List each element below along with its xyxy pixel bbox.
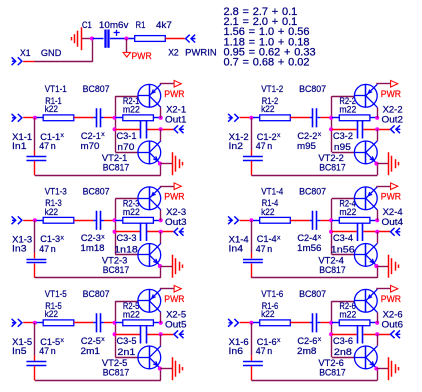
label Out3 — [165, 217, 187, 227]
svg-text:C2-3: C2-3 — [81, 233, 101, 243]
svg-text:x: x — [318, 336, 322, 343]
wire VT1 collector down — [160, 107, 162, 117]
svg-text:47 n: 47 n — [39, 244, 56, 254]
capacitor C3-2 — [358, 120, 363, 138]
svg-text:Out5: Out5 — [165, 319, 187, 329]
svg-text:X2-6: X2-6 — [383, 309, 403, 319]
label PWR block 6 — [381, 294, 401, 304]
power PWR block 2 — [391, 80, 398, 87]
label C1-1 value 47n — [39, 141, 56, 151]
transistor VT1-2 (BC807 pnp) — [354, 84, 377, 107]
ground block 4 — [389, 255, 399, 278]
label VT2-4 — [318, 256, 344, 266]
svg-text:In5: In5 — [12, 346, 27, 356]
label C2-3 value — [81, 243, 105, 253]
transistor VT1-6 (BC807 pnp) — [354, 289, 377, 312]
node C5 (R2 right) — [159, 321, 163, 325]
node D5 (C3 right/output) — [159, 332, 163, 336]
label R1-2 value k22 — [261, 104, 275, 114]
capacitor C1-3 — [26, 260, 46, 263]
wire VT1 emitter to PWR — [376, 186, 390, 188]
label VT2-2 — [318, 153, 344, 163]
svg-text:BC807: BC807 — [299, 186, 326, 196]
wire VT2 collector up — [377, 232, 379, 244]
node input junction 2 — [249, 116, 253, 120]
label VT1-1 — [45, 84, 67, 94]
svg-text:BC817: BC817 — [319, 265, 346, 275]
node B3 (C3 left) — [113, 230, 117, 234]
wire C3 line — [332, 231, 390, 233]
capacitor C3-5 — [141, 325, 147, 343]
svg-text:VT1-5: VT1-5 — [45, 289, 67, 299]
capacitor C1-2 — [243, 157, 263, 161]
label X1-6 — [229, 337, 249, 347]
wire bottom rail — [35, 164, 161, 176]
node A3 (R2 left) — [113, 218, 117, 222]
wire base loop (left/top/bottom of inner box) — [332, 96, 355, 152]
ground block 2 — [389, 152, 399, 175]
svg-text:Out4: Out4 — [382, 217, 404, 227]
label R1-6 — [262, 301, 279, 311]
wire emitter to ground — [377, 163, 389, 165]
wire input to node — [240, 220, 250, 222]
svg-text:m22: m22 — [339, 309, 356, 319]
ground block 1 — [173, 152, 183, 175]
wire VT1 emitter to PWR — [160, 288, 174, 290]
label VT2-2 value BC817 — [319, 162, 346, 172]
wire R1 to C2 — [74, 117, 93, 119]
resistor R2-6 — [332, 320, 376, 326]
wire C2 to node A — [320, 322, 330, 324]
transistor VT2-1 (BC817 npn) — [138, 141, 161, 164]
label R2-6 — [339, 301, 356, 311]
label R1-5 value k22 — [45, 309, 59, 319]
svg-text:X2-2: X2-2 — [383, 105, 403, 115]
wire VT1 collector down — [160, 210, 162, 220]
svg-text:PWR: PWR — [164, 192, 184, 202]
label X2-2 — [383, 105, 403, 115]
wire input to node — [240, 117, 250, 119]
svg-text:x: x — [101, 131, 105, 138]
node A2 (R2 left) — [329, 116, 333, 120]
label R1-5 — [45, 301, 62, 311]
power PWR block 3 — [174, 183, 181, 190]
wire C3 line — [332, 334, 390, 336]
label VT2-5 value BC817 — [103, 367, 130, 377]
capacitor C1 (electrolytic) — [93, 30, 135, 48]
svg-text:VT1-4: VT1-4 — [261, 186, 283, 196]
label PWRIN — [185, 47, 217, 57]
svg-text:PWR: PWR — [381, 294, 401, 304]
label X2-5 — [166, 309, 186, 319]
node input junction 1 — [33, 116, 37, 120]
wire C1 to bottom rail — [34, 263, 36, 278]
connector X2-4 — [391, 228, 401, 236]
label C1 value 10m6v — [99, 20, 129, 30]
wire input to node — [23, 117, 33, 119]
svg-text:GND: GND — [41, 48, 62, 58]
label C1-3 — [40, 234, 64, 244]
wire VT1 collector down — [377, 210, 379, 220]
svg-text:x: x — [101, 336, 105, 343]
label In2 — [229, 141, 244, 151]
label R2-3 — [123, 198, 139, 208]
svg-text:k22: k22 — [45, 207, 59, 217]
connector X1-3 — [12, 216, 22, 224]
label X1-1 — [12, 132, 32, 142]
wire C3 line — [332, 129, 390, 131]
svg-text:m70: m70 — [81, 141, 100, 151]
svg-text:X2-1: X2-1 — [166, 105, 186, 115]
resistor R1-4 — [253, 217, 290, 223]
svg-text:C3-6: C3-6 — [333, 336, 353, 346]
label In6 — [229, 346, 244, 356]
node VT2 emitter / ground 5 — [158, 367, 162, 371]
svg-text:In4: In4 — [229, 244, 244, 254]
node C1 (R2 right) — [159, 116, 163, 120]
svg-text:C2-2: C2-2 — [297, 131, 317, 141]
label X2-1 — [166, 105, 186, 115]
wire C2 to node A — [320, 117, 330, 119]
wire VT1 emitter to PWR — [160, 186, 174, 188]
connector X1-4 — [228, 216, 238, 224]
label VT2-3 — [102, 256, 128, 266]
label C1 — [82, 20, 92, 30]
power PWR block 4 — [391, 183, 398, 190]
wire C2 to node A — [104, 220, 114, 222]
node input junction 3 — [33, 218, 37, 222]
connector X2-1 — [174, 125, 184, 133]
label VT1-5 value BC807 — [83, 289, 110, 299]
svg-text:In6: In6 — [229, 346, 244, 356]
node C6 (R2 right) — [375, 321, 379, 325]
label X1-3 — [12, 234, 32, 244]
wire C1 to bottom rail — [34, 366, 36, 381]
transistor VT2-2 (BC817 npn) — [354, 141, 377, 164]
svg-text:C1: C1 — [82, 20, 92, 30]
svg-text:x: x — [318, 233, 322, 240]
svg-text:k22: k22 — [261, 309, 275, 319]
label R1-4 value k22 — [261, 207, 275, 217]
svg-text:x: x — [61, 234, 65, 241]
wire bottom rail — [35, 369, 161, 381]
label C3-3 — [117, 233, 137, 243]
wire C1 to bottom rail — [251, 263, 253, 278]
ground (top) — [72, 27, 92, 50]
label R2-2 value m22 — [339, 105, 356, 115]
svg-text:m22: m22 — [123, 309, 140, 319]
label R1 — [136, 20, 146, 30]
svg-text:X2-3: X2-3 — [166, 207, 186, 217]
svg-text:k22: k22 — [45, 309, 59, 319]
label R2-5 — [123, 301, 139, 311]
label C3-5 — [117, 336, 137, 346]
wire base loop (left/top/bottom of inner box) — [115, 199, 138, 255]
label R1 value 4k7 — [156, 20, 172, 30]
label PWR block 4 — [381, 192, 401, 202]
label R2-1 — [123, 96, 139, 106]
wire emitter to ground — [160, 163, 172, 165]
svg-text:n95: n95 — [334, 142, 351, 152]
svg-text:PWR: PWR — [381, 192, 401, 202]
ground block 6 — [389, 357, 399, 380]
label VT2-4 value BC817 — [319, 265, 346, 275]
svg-text:Out3: Out3 — [165, 217, 187, 227]
label X2-6 — [383, 309, 403, 319]
node GND junction — [90, 36, 94, 40]
label VT1-3 value BC807 — [83, 186, 110, 196]
label X2 — [168, 47, 179, 57]
label C2-4 value — [297, 243, 322, 253]
label X2-4 — [383, 207, 403, 217]
label C3-6 value — [334, 347, 352, 357]
label C1-1 — [40, 132, 64, 142]
node VT2 emitter / ground 4 — [374, 264, 378, 268]
wire R1 to X2 — [165, 38, 184, 40]
svg-text:1m56: 1m56 — [297, 243, 322, 253]
wire C3 line — [115, 129, 173, 131]
svg-text:BC817: BC817 — [319, 367, 346, 377]
svg-text:Out2: Out2 — [382, 114, 404, 124]
label R1-3 — [45, 198, 62, 208]
node A6 (R2 left) — [329, 321, 333, 325]
label R2-1 value m22 — [123, 105, 140, 115]
label X1-4 — [229, 234, 249, 244]
label C2-1 value — [81, 141, 100, 151]
label C2-3 — [81, 233, 105, 243]
svg-text:VT1-2: VT1-2 — [261, 84, 283, 94]
label C3-2 value — [334, 142, 351, 152]
label Out2 — [382, 114, 404, 124]
svg-text:PWR: PWR — [381, 89, 401, 99]
capacitor C1-4 — [243, 260, 263, 263]
wire VT1 collector down — [160, 312, 162, 322]
svg-text:47 n: 47 n — [39, 346, 56, 356]
label PWR block 1 — [164, 89, 184, 99]
power PWR (down arrow) — [123, 52, 130, 57]
label VT1-1 value BC807 — [83, 84, 110, 94]
transistor VT1-1 (BC807 pnp) — [138, 84, 161, 107]
label C1-4 value 47n — [256, 244, 273, 254]
svg-text:C2-4: C2-4 — [297, 233, 317, 243]
node C4 (R2 right) — [375, 218, 379, 222]
svg-text:BC807: BC807 — [299, 289, 326, 299]
node D4 (C3 right/output) — [375, 230, 379, 234]
label VT1-6 value BC807 — [299, 289, 326, 299]
power PWR block 5 — [174, 285, 181, 292]
transistor VT1-4 (BC807 pnp) — [354, 187, 377, 210]
wire node down to C1 — [34, 220, 36, 258]
transistor VT1-5 (BC807 pnp) — [138, 289, 161, 312]
label PWR (top) — [132, 51, 152, 61]
label VT1-3 — [45, 186, 67, 196]
label C2-2 value — [297, 141, 316, 151]
transistor VT1-3 (BC807 pnp) — [138, 187, 161, 210]
label VT1-2 value BC807 — [299, 84, 326, 94]
label C3-4 — [333, 233, 353, 243]
svg-text:VT1-3: VT1-3 — [45, 186, 67, 196]
node VT2 emitter / ground 6 — [374, 367, 378, 371]
label C1-5 value 47n — [39, 346, 56, 356]
label VT2-1 — [102, 153, 128, 163]
label C3-6 — [333, 336, 353, 346]
wire base loop (left/top/bottom of inner box) — [115, 301, 138, 357]
wire C1 to bottom rail — [34, 161, 36, 176]
label X2-3 — [166, 207, 186, 217]
node B2 (C3 left) — [329, 127, 333, 131]
label C2-5 value — [81, 346, 101, 356]
label Out5 — [165, 319, 187, 329]
resistor R1-2 — [253, 115, 290, 121]
label C3-2 — [333, 131, 353, 141]
node D1 (C3 right/output) — [159, 127, 163, 131]
wire input to node — [240, 322, 250, 324]
svg-text:m22: m22 — [339, 105, 356, 115]
label GND — [41, 48, 62, 58]
capacitor C1-5 — [26, 362, 46, 366]
connector X1-1 — [12, 114, 22, 122]
label C2-5 — [81, 336, 105, 346]
note: equations text block — [224, 6, 316, 68]
svg-text:m22: m22 — [123, 105, 140, 115]
svg-text:n70: n70 — [117, 142, 134, 152]
label R2-4 — [339, 198, 356, 208]
capacitor C2-4 — [310, 211, 321, 230]
label C1-2 value 47n — [256, 141, 273, 151]
svg-text:BC807: BC807 — [83, 186, 110, 196]
wire VT2 collector up — [160, 334, 162, 346]
svg-text:C3-5: C3-5 — [117, 336, 137, 346]
svg-text:R1: R1 — [136, 20, 146, 30]
ground block 5 — [173, 357, 183, 380]
label R1-3 value k22 — [45, 207, 59, 217]
wire VT2 collector up — [377, 334, 379, 346]
node input junction 5 — [33, 321, 37, 325]
svg-text:PWRIN: PWRIN — [185, 47, 217, 57]
wire C2 to node A — [104, 322, 114, 324]
svg-text:C3-3: C3-3 — [117, 233, 137, 243]
svg-text:x: x — [61, 337, 65, 344]
capacitor C2-3 — [93, 211, 104, 230]
transistor VT2-5 (BC817 npn) — [138, 346, 161, 369]
wire input to node — [23, 322, 33, 324]
label C3-5 value — [117, 347, 135, 357]
label R2-2 — [339, 96, 356, 106]
connector X1-5 — [12, 319, 22, 327]
svg-text:x: x — [318, 131, 322, 138]
connector X1-6 — [228, 319, 238, 327]
wire VT2 collector up — [377, 129, 379, 141]
svg-text:C2-6: C2-6 — [297, 336, 317, 346]
node C2 (R2 right) — [375, 116, 379, 120]
label VT1-6 — [261, 289, 283, 299]
wire input to node — [23, 220, 33, 222]
node VT2 emitter / ground 3 — [158, 264, 162, 268]
label VT2-6 value BC817 — [319, 367, 346, 377]
label VT1-4 — [261, 186, 283, 196]
label C1-6 value 47n — [256, 346, 273, 356]
node B6 (C3 left) — [329, 332, 333, 336]
svg-text:BC817: BC817 — [103, 367, 130, 377]
label X1-2 — [229, 132, 249, 142]
label Out6 — [382, 319, 404, 329]
capacitor C3-1 — [141, 120, 147, 138]
wire VT2 collector up — [160, 232, 162, 244]
svg-text:C2-1: C2-1 — [81, 131, 101, 141]
node A5 (R2 left) — [113, 321, 117, 325]
svg-text:x: x — [101, 233, 105, 240]
svg-text:47 n: 47 n — [256, 346, 273, 356]
svg-text:BC807: BC807 — [83, 84, 110, 94]
node VT2 emitter / ground 2 — [374, 162, 378, 166]
label C3-1 value — [117, 142, 134, 152]
svg-text:m95: m95 — [297, 141, 316, 151]
wire node down to C1 — [251, 220, 253, 258]
resistor R2-2 — [332, 115, 376, 121]
svg-text:1m18: 1m18 — [81, 243, 105, 253]
svg-text:C2-5: C2-5 — [81, 336, 101, 346]
capacitor C2-1 — [93, 108, 104, 127]
svg-text:PWR: PWR — [164, 294, 184, 304]
label C1-6 — [257, 337, 281, 347]
transistor VT2-3 (BC817 npn) — [138, 243, 161, 266]
svg-text:C3-2: C3-2 — [333, 131, 353, 141]
svg-text:0.7 = 0.68 + 0.02: 0.7 = 0.68 + 0.02 — [224, 56, 310, 68]
wire C2 to node A — [320, 220, 330, 222]
svg-text:47 n: 47 n — [256, 141, 273, 151]
node D6 (C3 right/output) — [375, 332, 379, 336]
svg-text:47 n: 47 n — [39, 141, 56, 151]
resistor R2-4 — [332, 217, 376, 223]
svg-text:X2-4: X2-4 — [383, 207, 403, 217]
label X1 — [20, 48, 31, 58]
wire R1 to C2 — [290, 220, 309, 222]
resistor R1-3 — [37, 217, 74, 223]
label R1-4 — [262, 198, 279, 208]
wire C3 line — [115, 334, 173, 336]
label VT1-2 — [261, 84, 283, 94]
capacitor C1-1 — [26, 157, 46, 161]
label VT2-1 value BC817 — [103, 162, 130, 172]
svg-text:4k7: 4k7 — [156, 20, 172, 30]
resistor R1-5 — [37, 320, 74, 326]
svg-text:BC817: BC817 — [103, 162, 130, 172]
connector X2-2 — [391, 125, 401, 133]
label C3-3 value — [114, 244, 138, 254]
capacitor C2-5 — [93, 313, 104, 332]
label R2-3 value m22 — [123, 207, 140, 217]
capacitor C3-3 — [141, 223, 147, 241]
svg-text:2n8: 2n8 — [334, 347, 352, 357]
label C2-6 — [297, 336, 321, 346]
label C1-5 — [40, 337, 64, 347]
wire base loop (left/top/bottom of inner box) — [332, 199, 355, 255]
capacitor C2-6 — [310, 313, 321, 332]
wire bottom rail — [251, 266, 377, 278]
wire emitter to ground — [160, 368, 172, 370]
svg-text:x: x — [277, 337, 281, 344]
wire bottom rail — [251, 369, 377, 381]
node PWR junction — [124, 36, 128, 40]
resistor R1-6 — [253, 320, 290, 326]
wire C3 line — [115, 231, 173, 233]
label R1-6 value k22 — [261, 309, 275, 319]
wire base loop (left/top/bottom of inner box) — [332, 301, 355, 357]
wire bottom rail — [35, 266, 161, 278]
svg-text:C1-4: C1-4 — [257, 234, 277, 244]
svg-text:X1: X1 — [20, 48, 31, 58]
svg-text:x: x — [277, 234, 281, 241]
